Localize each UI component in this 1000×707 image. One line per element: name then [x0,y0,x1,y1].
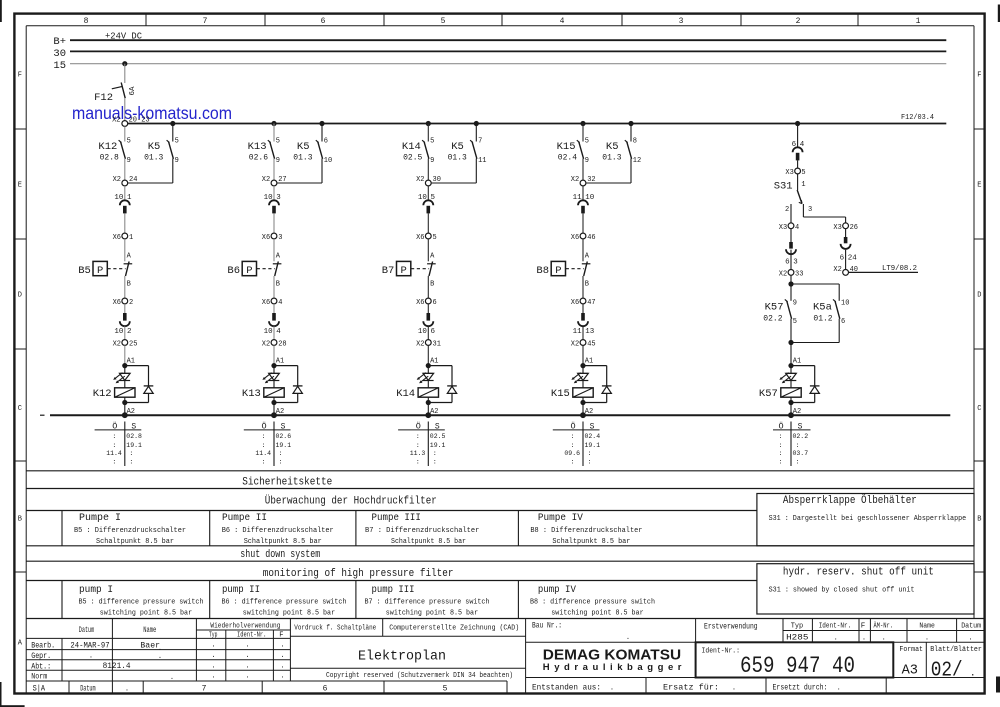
node A2 on 0V bus [122,403,135,419]
svg-text:.: . [170,674,174,682]
terminal X3:26 [833,223,858,232]
svg-text:A1: A1 [127,358,135,366]
svg-text:Entstanden aus:: Entstanden aus: [532,683,601,692]
svg-text::: : [129,459,133,466]
terminal X6:4 [262,298,283,307]
suppressor diode V15 [583,366,612,403]
svg-text:24: 24 [129,176,137,184]
svg-text:Copyright reserved (Schutzverm: Copyright reserved (Schutzvermerk DIN 34… [326,672,513,680]
svg-text:X3: X3 [833,224,841,232]
svg-text:B: B [585,281,589,289]
svg-text::: : [779,442,783,449]
svg-text::: : [129,450,133,457]
ident number box 659 947 40 [696,642,894,679]
svg-text:Typ: Typ [209,632,217,640]
terminal X2:45 [571,326,596,348]
fuse F12 [94,61,137,120]
svg-text:F12/03.4: F12/03.4 [901,114,934,122]
svg-text:C: C [18,405,22,413]
svg-text:5: 5 [585,138,589,146]
svg-text:01.3: 01.3 [293,153,312,162]
svg-text:switching point 8.5 bar: switching point 8.5 bar [551,609,643,617]
svg-text:9: 9 [127,157,131,165]
svg-text:Ersatz für:: Ersatz für: [663,683,719,692]
svg-text:6: 6 [323,684,328,693]
svg-text:Abt.:: Abt.: [31,662,51,671]
terminal X6:2 [113,298,134,307]
svg-text:02/: 02/ [931,660,963,683]
node A2 K57 on 0V bus [788,403,801,419]
svg-text:5: 5 [443,684,448,693]
svg-text:Vordruck f. Schaltpläne: Vordruck f. Schaltpläne [294,625,376,633]
terminal X6:3 [262,213,283,241]
svg-text:manuals-komatsu.com: manuals-komatsu.com [72,103,232,123]
svg-text:.: . [626,634,630,642]
svg-text:pump II: pump II [222,585,260,596]
cross reference table K14 [398,420,445,466]
format cell A3 [899,646,923,679]
node A1 [580,345,593,368]
svg-text:33: 33 [795,270,803,278]
svg-text:X6: X6 [113,234,121,242]
cell pump III [365,585,490,617]
svg-text:.: . [211,673,215,681]
svg-text:.: . [280,673,284,681]
wire K5 branch to terminal [128,159,173,184]
contact K57 pins 9/5 [763,284,797,343]
svg-text:A: A [430,253,435,261]
title block right grid [526,619,985,694]
svg-text::: : [779,459,783,466]
svg-text:Pumpe IV: Pumpe IV [538,513,583,524]
wire bus B+ [70,39,946,41]
terminal X2:27 [262,159,287,186]
svg-text:B5: B5 [78,265,91,277]
svg-text:E: E [977,182,981,190]
connector plug 10|2 [114,304,131,336]
svg-text:ÄM-Nr.: ÄM-Nr. [874,622,894,631]
svg-text:S31: S31 [774,181,793,193]
suppressor diode V12 [125,366,154,403]
svg-text::: : [779,450,783,457]
title block repeat-use dots [89,642,285,683]
svg-text:9: 9 [276,157,280,165]
svg-text:7: 7 [203,17,208,26]
svg-text:02.2: 02.2 [763,314,782,323]
svg-text:13: 13 [585,328,595,336]
svg-text:X3: X3 [785,169,793,177]
svg-text:Elektroplan: Elektroplan [358,648,446,664]
terminal X3:5 [785,160,805,177]
svg-text:8121.4: 8121.4 [103,661,131,671]
LED indicator of K13 [262,366,279,384]
svg-text:10: 10 [841,299,849,307]
svg-text:2: 2 [129,299,133,307]
suppressor diode V57 [791,366,820,403]
svg-text:A1: A1 [585,358,593,366]
svg-text:shut down system: shut down system [240,549,320,561]
connector plug 6|3 [785,229,798,267]
svg-text:5: 5 [441,17,446,26]
svg-text:K12: K12 [93,388,112,400]
svg-text:.: . [882,634,886,642]
svg-text:24-MAR-97: 24-MAR-97 [70,641,109,651]
svg-text:Pumpe II: Pumpe II [222,513,267,524]
svg-text:B: B [977,516,981,524]
svg-text:Pumpe III: Pumpe III [372,513,421,524]
title block labels left [31,623,283,682]
svg-text:B: B [127,281,131,289]
svg-text:X2: X2 [262,340,270,348]
svg-text:.: . [211,652,215,660]
pressure switch B8 contact [582,239,591,298]
node bus junction S31 branch [795,121,800,126]
svg-text:02.6: 02.6 [249,153,268,162]
svg-text:.: . [125,685,129,693]
svg-text:11.3: 11.3 [410,450,426,457]
pressure sensor B8 [P] [536,261,583,277]
svg-text::: : [433,450,437,457]
svg-text:H285: H285 [786,633,808,643]
svg-text:Pumpe I: Pumpe I [79,513,121,524]
svg-text::: : [588,459,592,466]
svg-text::: : [571,442,575,449]
cell pump II [222,585,347,617]
svg-text:B+: B+ [53,36,66,48]
svg-text:Schaltpunkt 8.5 bar: Schaltpunkt 8.5 bar [244,538,322,546]
svg-text:Name: Name [919,623,935,631]
svg-text:F: F [861,623,866,631]
wire bus 30 [70,50,946,52]
svg-text:02.4: 02.4 [558,153,577,162]
svg-text:A: A [18,640,23,648]
relay coil K13 [242,381,284,406]
svg-text:E: E [18,182,22,190]
svg-text:6: 6 [840,255,845,263]
svg-text:3: 3 [679,17,684,26]
svg-text:02.8: 02.8 [100,153,119,162]
node A1 [122,345,135,368]
svg-text:26: 26 [850,224,858,232]
terminal X2:31 [416,326,441,348]
svg-text:.: . [245,673,249,681]
svg-text:02.5: 02.5 [403,153,422,162]
relay coil K15 [551,381,593,406]
svg-text:5: 5 [127,138,131,146]
connector plug 11|10 [573,186,595,214]
svg-text:K57: K57 [765,302,784,314]
svg-text:D: D [977,292,981,300]
svg-text:9: 9 [430,157,434,165]
pressure sensor B6 [P] [227,261,274,277]
svg-text:P: P [246,265,252,277]
svg-text:A1: A1 [793,358,801,366]
svg-text:X6: X6 [262,234,270,242]
svg-text:X2: X2 [779,270,787,278]
svg-text:B: B [276,281,280,289]
svg-text:.: . [732,684,736,692]
svg-text:pump IV: pump IV [538,585,576,596]
connector plug 10|4 [264,304,282,336]
svg-text:9: 9 [175,157,179,165]
svg-text:11.4: 11.4 [106,450,122,457]
svg-text:monitoring of high pressure fi: monitoring of high pressure filter [263,568,454,580]
connector plug 10|6 [418,304,436,336]
svg-text:Gepr.: Gepr. [31,652,51,661]
svg-text:Name: Name [143,626,156,635]
svg-text:.: . [925,634,929,642]
svg-text::: : [416,442,420,449]
svg-text:.: . [158,645,162,653]
svg-text:10: 10 [114,328,124,336]
svg-text:B7 : Differenzdruckschalter: B7 : Differenzdruckschalter [365,527,479,535]
footer strip [33,681,507,694]
svg-text:7: 7 [478,138,482,146]
svg-text:Überwachung der Hochdruckfilte: Überwachung der Hochdruckfilter [265,495,437,508]
svg-text::: : [262,442,266,449]
svg-text::: : [571,433,575,440]
title block grid left [26,619,507,682]
box hydr. reserv. shut off unit [757,564,974,614]
svg-text:A: A [276,253,281,261]
svg-text:pump I: pump I [79,585,113,596]
contact K15 (NO) pins 5/9 [557,124,589,166]
svg-text:Erstverwendung: Erstverwendung [704,622,758,631]
svg-text:10: 10 [324,157,332,165]
cross reference table K57 [773,420,811,466]
svg-text:5: 5 [276,138,280,146]
svg-text::: : [416,433,420,440]
svg-text:X6: X6 [416,234,424,242]
svg-text:11: 11 [478,157,486,165]
svg-text:S31 : Dargestellt bei geschlos: S31 : Dargestellt bei geschlossener Absp… [769,515,967,523]
relay coil K14 [396,381,438,406]
svg-text:X2: X2 [112,116,120,124]
svg-text:4: 4 [276,328,281,336]
svg-text:K15: K15 [551,388,570,400]
wire bus 15 [70,63,946,65]
svg-text:3: 3 [793,259,798,267]
svg-text:Bau Nr.:: Bau Nr.: [532,621,562,630]
node A2 on 0V bus [271,403,284,419]
svg-text:.: . [280,642,284,650]
svg-text:6: 6 [321,17,326,26]
svg-text:K13: K13 [242,388,261,400]
terminal X2:20-23 [112,116,150,126]
svg-text:02.8: 02.8 [126,433,142,440]
svg-text:6A: 6A [129,86,137,96]
cell Pumpe III [365,513,479,546]
terminal X2:33 [779,250,804,279]
svg-text::: : [779,433,783,440]
svg-text:30: 30 [53,48,66,60]
svg-text:Bearb.: Bearb. [31,641,55,650]
svg-text:.: . [211,662,215,670]
svg-text::: : [112,433,116,440]
svg-text:11.4: 11.4 [255,450,271,457]
svg-text:X2: X2 [416,176,424,184]
svg-text:A3: A3 [902,664,918,679]
node bus junction K15 branch [580,121,585,126]
svg-text:C: C [977,405,981,413]
contact K13 (NO) pins 5/9 [248,124,280,166]
svg-text:01.2: 01.2 [813,314,832,323]
svg-text:4: 4 [278,299,282,307]
svg-text:K14: K14 [396,388,415,400]
svg-text:Schaltpunkt 8.5 bar: Schaltpunkt 8.5 bar [391,538,466,546]
cell Pumpe I [74,513,186,546]
svg-text:Datum: Datum [79,626,95,635]
node bus junction K14 branch [426,121,431,126]
svg-text:B5 : difference pressure switc: B5 : difference pressure switch [79,599,204,607]
svg-text:10: 10 [264,328,274,336]
svg-text:X2: X2 [262,176,270,184]
svg-text:3: 3 [278,234,282,242]
node A1 [426,345,439,368]
svg-text::: : [262,433,266,440]
svg-text:P: P [401,265,407,277]
svg-text:Ident-Nr.: Ident-Nr. [819,623,852,631]
contact K5 parallel pins 6/10 [293,121,332,165]
svg-text:25: 25 [129,340,137,348]
terminal X6:1 [113,213,134,241]
wire K5 branch to terminal [431,159,476,184]
svg-text:Schaltpunkt 8.5 bar: Schaltpunkt 8.5 bar [552,538,630,546]
connector plug 10|5 [418,186,436,214]
relay coil K12 [93,381,135,406]
LED indicator of K15 [571,366,588,384]
svg-text:31: 31 [433,340,441,348]
title block right header [532,621,982,642]
svg-text:K5: K5 [606,141,619,153]
pressure switch B6 contact [273,239,282,298]
svg-text:B8: B8 [536,265,549,277]
svg-text:K5: K5 [451,141,464,153]
svg-text:.: . [862,634,866,642]
svg-text:A1: A1 [276,358,284,366]
svg-text:B: B [430,281,434,289]
svg-text:P: P [97,265,103,277]
svg-text:.: . [280,662,284,670]
svg-text:01.3: 01.3 [602,153,621,162]
svg-text::: : [279,459,283,466]
svg-text:19.1: 19.1 [276,442,292,449]
svg-text:S31 : showed by closed shut of: S31 : showed by closed shut off unit [769,586,915,594]
svg-text:01.3: 01.3 [448,153,467,162]
logo DEMAG KOMATSU [543,648,682,673]
svg-text:Typ: Typ [791,623,804,631]
svg-text:switching point 8.5 bar: switching point 8.5 bar [100,609,192,617]
cell Pumpe II [222,513,334,546]
svg-text:7: 7 [202,684,207,693]
svg-text::: : [796,459,800,466]
svg-text:19.1: 19.1 [430,442,446,449]
svg-text:X2: X2 [113,176,121,184]
svg-text:S|A: S|A [33,684,46,693]
svg-text:F: F [977,72,981,80]
connector plug 10|1 [114,186,132,214]
wire K5 branch to terminal [586,159,631,184]
svg-text:Absperrklappe Ölbehälter: Absperrklappe Ölbehälter [783,494,917,507]
terminal X6:5 [416,213,437,241]
svg-text:X6: X6 [571,234,579,242]
svg-text:LT9/08.2: LT9/08.2 [882,265,917,273]
wire main control bus [128,123,947,125]
cross reference table K15 [553,420,600,466]
svg-text:5: 5 [793,318,797,326]
svg-text::: : [112,442,116,449]
box Absperrklappe Oelbehaelter [757,494,974,546]
svg-text:P: P [555,265,561,277]
contact K12 (NO) pins 5/9 [98,126,130,165]
svg-text::: : [279,450,283,457]
cell pump IV [530,585,655,617]
svg-text:5: 5 [801,169,805,177]
pressure sensor B5 [P] [78,261,125,277]
svg-text:659 947 40: 659 947 40 [740,653,855,679]
svg-text:switching point 8.5 bar: switching point 8.5 bar [243,609,335,617]
title block bottom row [532,683,841,692]
svg-text:switching point 8.5 bar: switching point 8.5 bar [386,609,478,617]
svg-text:Ident-Nr.:: Ident-Nr.: [702,647,741,655]
svg-text::: : [796,442,800,449]
wire to LT9/08.2 [849,265,919,273]
svg-text:6: 6 [433,299,437,307]
svg-text:Datum: Datum [961,623,981,631]
svg-text:24: 24 [848,255,858,263]
svg-text:.: . [837,684,841,692]
svg-text:.: . [245,662,249,670]
svg-text:A1: A1 [430,358,438,366]
svg-text:.: . [89,653,93,661]
svg-text:B6 : Differenzdruckschalter: B6 : Differenzdruckschalter [222,527,334,535]
suppressor diode V14 [428,366,457,403]
0V return bus [40,414,950,416]
svg-text::: : [571,459,575,466]
svg-text:02.4: 02.4 [585,433,601,440]
svg-text:Sicherheitskette: Sicherheitskette [242,477,332,489]
svg-text:X6: X6 [262,299,270,307]
svg-text::: : [588,450,592,457]
node A1 [271,345,284,368]
svg-text:F: F [18,72,22,80]
suppressor diode V13 [274,366,303,403]
LED indicator of K57 [779,366,796,384]
svg-text::: : [112,459,116,466]
svg-text:K12: K12 [98,141,117,153]
svg-text:03.7: 03.7 [793,450,809,457]
svg-text:Schaltpunkt 8.5 bar: Schaltpunkt 8.5 bar [96,538,174,546]
svg-text:1: 1 [916,17,921,26]
terminal X2:24 [113,159,138,186]
terminal X2:32 [571,159,596,186]
svg-text:B8 : Differenzdruckschalter: B8 : Differenzdruckschalter [530,527,642,535]
node K57 branch split [788,275,839,286]
LED indicator of K12 [113,366,130,384]
svg-text:4: 4 [560,17,565,26]
svg-text:19.1: 19.1 [126,442,142,449]
svg-text:.: . [610,684,614,692]
svg-text:47: 47 [587,299,595,307]
node bus junction K13 branch [271,121,276,126]
connector plug 11|13 [573,304,595,336]
svg-text:X2: X2 [571,176,579,184]
node K5a rejoin [788,340,839,345]
cell Pumpe IV [530,513,642,546]
svg-text:9: 9 [585,157,589,165]
svg-text:F: F [279,632,283,640]
svg-text:X2: X2 [416,340,424,348]
